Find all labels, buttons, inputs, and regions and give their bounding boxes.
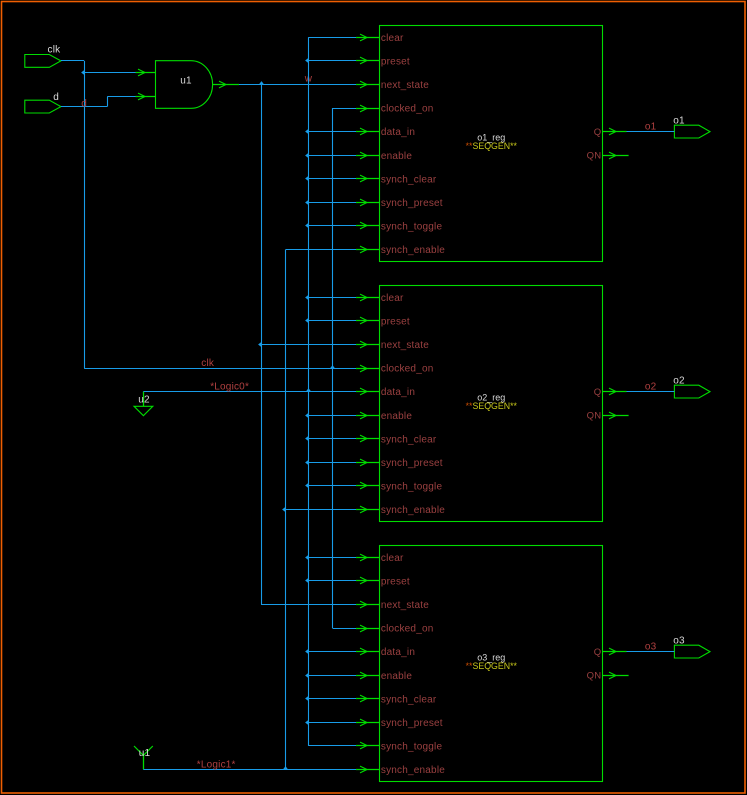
o1_reg pin next_state bbox=[356, 80, 429, 91]
input port d bbox=[25, 92, 61, 113]
svg-text:synch_preset: synch_preset bbox=[381, 198, 443, 209]
svg-text:synch_clear: synch_clear bbox=[381, 694, 437, 705]
svg-text:*Logic1*: *Logic1* bbox=[197, 760, 236, 771]
junction logic0 branch y=438.768 bbox=[308, 438, 356, 440]
svg-text:o1: o1 bbox=[673, 116, 685, 127]
junction logic0 branch y=202.346 bbox=[308, 202, 356, 204]
junction logic0 branch y=178.768 bbox=[308, 178, 356, 180]
svg-text:synch_preset: synch_preset bbox=[381, 458, 443, 469]
wire net *Logic1* (u1 tie -> synch_enable pins) bbox=[143, 250, 356, 771]
register U1 o1_reg SEQGEN bbox=[380, 26, 603, 262]
input port clk bbox=[25, 45, 61, 68]
svg-text:o3: o3 bbox=[645, 642, 657, 653]
o3_reg pin enable bbox=[356, 671, 412, 682]
junction logic1 branch o2_reg bbox=[282, 507, 285, 512]
svg-text:QN: QN bbox=[587, 411, 602, 422]
svg-text:preset: preset bbox=[381, 316, 410, 327]
svg-text:synch_toggle: synch_toggle bbox=[381, 222, 443, 233]
svg-text:o2: o2 bbox=[645, 382, 657, 393]
wire net w (and.out -> regs next_state) bbox=[239, 73, 356, 604]
o1_reg pin enable bbox=[356, 151, 412, 162]
svg-text:preset: preset bbox=[381, 576, 410, 587]
o2_reg pin QN (unconnected stub) bbox=[587, 411, 629, 422]
wire net o3 (Q -> port o3) bbox=[627, 642, 675, 653]
o3_reg pin synch_preset bbox=[356, 718, 443, 729]
svg-text:u1: u1 bbox=[139, 748, 151, 759]
junction logic0 branch y=485.924 bbox=[308, 485, 356, 487]
junction logic0 branch y=320.878 bbox=[308, 320, 356, 322]
svg-text:data_in: data_in bbox=[381, 387, 415, 398]
svg-text:enable: enable bbox=[381, 151, 412, 162]
svg-text:synch_preset: synch_preset bbox=[381, 718, 443, 729]
o3_reg pin clocked_on bbox=[356, 624, 433, 635]
junction logic0 branch y=225.924 bbox=[308, 225, 356, 227]
svg-text:QN: QN bbox=[587, 151, 602, 162]
svg-text:o2: o2 bbox=[673, 376, 685, 387]
junction w branch down bbox=[259, 81, 264, 84]
junction w branch o2_reg bbox=[258, 342, 261, 347]
svg-text:d: d bbox=[81, 98, 87, 109]
junction logic0 branch y=580.878 bbox=[308, 580, 356, 582]
svg-text:synch_enable: synch_enable bbox=[381, 505, 445, 516]
svg-text:clocked_on: clocked_on bbox=[381, 104, 434, 115]
o1_reg pin clear bbox=[356, 33, 404, 44]
output port o1 bbox=[673, 116, 710, 138]
AND gate u1 bbox=[136, 61, 240, 109]
junction logic0 branch y=557.3 bbox=[308, 557, 356, 559]
o3_reg pin synch_enable bbox=[356, 765, 445, 776]
svg-text:u1: u1 bbox=[180, 76, 192, 87]
wire net o1 (Q -> port o1) bbox=[627, 122, 675, 133]
svg-text:next_state: next_state bbox=[381, 340, 429, 351]
svg-text:clk: clk bbox=[201, 358, 215, 369]
o1_reg pin data_in bbox=[356, 127, 415, 138]
svg-text:clocked_on: clocked_on bbox=[381, 624, 434, 635]
o1_reg pin synch_preset bbox=[356, 198, 443, 209]
o3_reg pin clear bbox=[356, 553, 404, 564]
svg-text:clear: clear bbox=[381, 33, 404, 44]
svg-text:synch_toggle: synch_toggle bbox=[381, 482, 443, 493]
svg-text:Q: Q bbox=[594, 127, 602, 138]
junction logic0 branch y=675.19 bbox=[308, 675, 356, 677]
o2_reg pin synch_preset bbox=[356, 458, 443, 469]
svg-text:enable: enable bbox=[381, 411, 412, 422]
junction logic0 trunk bbox=[306, 388, 311, 391]
logic1 tie cell u1 bbox=[134, 746, 153, 770]
o2_reg pin next_state bbox=[356, 340, 429, 351]
o2_reg pin data_in bbox=[356, 387, 415, 398]
o3_reg pin next_state bbox=[356, 600, 429, 611]
o2_reg pin clocked_on bbox=[356, 364, 433, 375]
svg-text:u2: u2 bbox=[138, 394, 150, 405]
o3_reg pin preset bbox=[356, 576, 410, 587]
junction logic0 branch y=60.878 bbox=[308, 60, 356, 62]
o2_reg pin preset bbox=[356, 316, 410, 327]
svg-text:Q: Q bbox=[594, 387, 602, 398]
svg-text:**SEQGEN**: **SEQGEN** bbox=[466, 401, 518, 411]
svg-text:o3: o3 bbox=[673, 636, 685, 647]
svg-text:Q: Q bbox=[594, 647, 602, 658]
svg-text:clear: clear bbox=[381, 293, 404, 304]
wire net *Logic0* (u2 -> clear/preset/data_in/enable/synch pins) bbox=[143, 37, 356, 746]
svg-text:synch_clear: synch_clear bbox=[381, 434, 437, 445]
o1_reg pin QN (unconnected stub) bbox=[587, 151, 629, 162]
svg-text:o1: o1 bbox=[645, 122, 657, 133]
svg-text:next_state: next_state bbox=[381, 600, 429, 611]
o3_reg pin data_in bbox=[356, 647, 415, 658]
junction clk branch to u1 bbox=[81, 70, 84, 75]
junction logic0 branch y=415.19 bbox=[308, 415, 356, 417]
o1_reg pin clocked_on bbox=[356, 104, 433, 115]
junction logic0 branch y=651.612 bbox=[308, 651, 356, 653]
o2_reg pin synch_toggle bbox=[356, 482, 442, 493]
logic0 tie cell u2 bbox=[134, 392, 153, 416]
junction logic0 branch y=722.346 bbox=[308, 722, 356, 724]
o3_reg pin synch_toggle bbox=[356, 742, 442, 753]
output port o3 bbox=[673, 636, 710, 659]
svg-text:QN: QN bbox=[587, 671, 602, 682]
o1_reg pin synch_toggle bbox=[356, 222, 442, 233]
junction logic0 branch y=462.346 bbox=[308, 462, 356, 464]
svg-text:synch_enable: synch_enable bbox=[381, 765, 445, 776]
o1_reg pin Q bbox=[594, 127, 627, 138]
wire net o2 (Q -> port o2) bbox=[627, 382, 675, 393]
o3_reg pin synch_clear bbox=[356, 694, 437, 705]
junction logic0 branch y=297.3 bbox=[308, 297, 356, 299]
wire net d (port d -> and.in2) bbox=[61, 97, 136, 110]
wire net clk (port clk -> and.in1, regs clocked_on) bbox=[61, 61, 356, 629]
junction clk trunk bbox=[330, 365, 335, 368]
o1_reg pin synch_enable bbox=[356, 245, 445, 256]
o2_reg pin enable bbox=[356, 411, 412, 422]
register U3 o3_reg SEQGEN bbox=[380, 546, 603, 782]
o3_reg pin QN (unconnected stub) bbox=[587, 671, 629, 682]
svg-text:clk: clk bbox=[48, 45, 62, 56]
o3_reg pin Q bbox=[594, 647, 627, 658]
svg-text:data_in: data_in bbox=[381, 647, 415, 658]
svg-text:enable: enable bbox=[381, 671, 412, 682]
svg-text:*Logic0*: *Logic0* bbox=[210, 382, 249, 393]
o2_reg pin synch_clear bbox=[356, 434, 437, 445]
svg-text:**SEQGEN**: **SEQGEN** bbox=[466, 661, 518, 671]
register U2 o2_reg SEQGEN bbox=[380, 286, 603, 522]
output port o2 bbox=[673, 376, 710, 399]
o1_reg pin preset bbox=[356, 56, 410, 67]
svg-text:preset: preset bbox=[381, 56, 410, 67]
svg-text:synch_clear: synch_clear bbox=[381, 174, 437, 185]
svg-text:synch_enable: synch_enable bbox=[381, 245, 445, 256]
o2_reg pin clear bbox=[356, 293, 404, 304]
svg-text:clear: clear bbox=[381, 553, 404, 564]
svg-text:data_in: data_in bbox=[381, 127, 415, 138]
o2_reg pin synch_enable bbox=[356, 505, 445, 516]
svg-text:clocked_on: clocked_on bbox=[381, 364, 434, 375]
junction logic0 branch y=698.768 bbox=[308, 698, 356, 700]
svg-text:synch_toggle: synch_toggle bbox=[381, 742, 443, 753]
svg-text:next_state: next_state bbox=[381, 80, 429, 91]
o2_reg pin Q bbox=[594, 387, 627, 398]
junction logic0 branch y=155.19 bbox=[308, 155, 356, 157]
svg-text:**SEQGEN**: **SEQGEN** bbox=[466, 141, 518, 151]
svg-text:d: d bbox=[53, 92, 59, 103]
junction logic1 trunk bottom bbox=[283, 766, 288, 769]
junction logic0 branch y=131.612 bbox=[308, 131, 356, 133]
o1_reg pin synch_clear bbox=[356, 174, 437, 185]
